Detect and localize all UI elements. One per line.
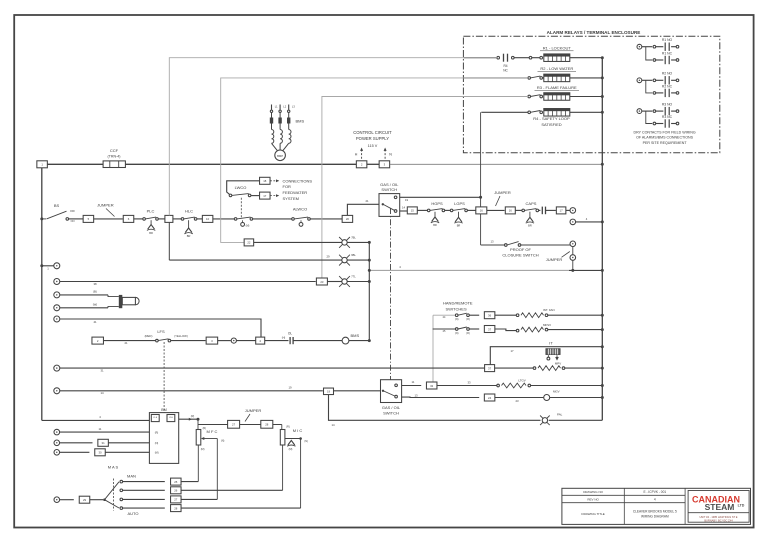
svg-text:R4 - SAFETY LOOP: R4 - SAFETY LOOP [533, 116, 570, 121]
svg-text:BR: BR [433, 223, 437, 227]
svg-text:17: 17 [263, 194, 267, 198]
svg-text:19: 19 [327, 390, 331, 394]
svg-text:11: 11 [99, 427, 102, 431]
svg-text:MPV: MPV [555, 362, 561, 366]
svg-text:14: 14 [100, 391, 104, 395]
svg-text:27: 27 [174, 498, 178, 502]
svg-text:(TRN-4): (TRN-4) [108, 154, 121, 158]
svg-text:N: N [389, 153, 392, 157]
svg-text:20: 20 [346, 217, 350, 221]
svg-text:M F C: M F C [207, 429, 218, 434]
svg-text:SWITCHES: SWITCHES [446, 307, 467, 312]
svg-text:18: 18 [263, 179, 267, 183]
svg-text:41: 41 [93, 320, 97, 324]
svg-text:E - ICPVK - 001: E - ICPVK - 001 [643, 490, 666, 494]
svg-text:(M): (M) [246, 225, 250, 228]
svg-text:CONTROL CIRCUIT: CONTROL CIRCUIT [353, 130, 392, 135]
svg-text:CCF: CCF [110, 148, 119, 153]
svg-text:FOR: FOR [283, 184, 292, 189]
svg-text:PAL: PAL [557, 412, 563, 416]
svg-text:LGPS: LGPS [454, 201, 465, 206]
svg-text:R4: R4 [503, 64, 507, 68]
svg-text:PER SITE REQUIREMENT: PER SITE REQUIREMENT [643, 141, 688, 145]
svg-text:HAND/REMOTE: HAND/REMOTE [443, 301, 473, 306]
svg-text:(R): (R) [466, 318, 470, 321]
svg-text:SYSTEM: SYSTEM [283, 196, 299, 201]
svg-text:LFS: LFS [157, 329, 165, 334]
svg-text:31: 31 [100, 369, 104, 373]
svg-text:SATISFIED: SATISFIED [541, 122, 561, 127]
svg-text:JUMPER: JUMPER [97, 203, 114, 208]
svg-text:25: 25 [174, 480, 178, 484]
svg-text:16: 16 [509, 209, 513, 213]
svg-text:29: 29 [83, 498, 87, 502]
svg-text:H: H [355, 153, 358, 157]
svg-text:CLEAVER BROOKS MODEL 5: CLEAVER BROOKS MODEL 5 [633, 510, 677, 514]
svg-text:MGV: MGV [553, 389, 560, 393]
svg-text:(H): (H) [282, 336, 286, 339]
svg-text:BR: BR [457, 224, 461, 228]
svg-text:ON: ON [71, 220, 75, 223]
svg-text:BR: BR [149, 231, 153, 235]
svg-text:PROOF OF: PROOF OF [510, 247, 531, 252]
svg-text:13: 13 [414, 393, 418, 397]
svg-text:JUMPER: JUMPER [494, 190, 511, 195]
svg-text:CLOSURE SWITCH: CLOSURE SWITCH [502, 253, 538, 258]
svg-text:BM: BM [161, 408, 166, 412]
svg-text:(B): (B) [93, 290, 97, 294]
svg-text:(M): (M) [201, 448, 205, 451]
svg-text:(N): (N) [455, 332, 459, 335]
svg-text:11: 11 [412, 380, 415, 384]
svg-text:MAN: MAN [127, 474, 136, 479]
svg-text:36: 36 [488, 314, 492, 318]
svg-text:(R): (R) [286, 425, 290, 428]
svg-text:37: 37 [488, 327, 492, 331]
svg-text:JUMPER: JUMPER [546, 257, 563, 262]
svg-text:19: 19 [288, 385, 292, 389]
svg-text:10: 10 [206, 217, 210, 221]
svg-text:32: 32 [430, 384, 434, 388]
svg-text:(R): (R) [155, 431, 159, 434]
svg-text:28: 28 [174, 506, 178, 510]
svg-text:POWER SUPPLY: POWER SUPPLY [356, 136, 389, 141]
svg-text:R2 NC: R2 NC [662, 84, 673, 88]
svg-text:14: 14 [331, 423, 335, 427]
svg-text:BS: BS [54, 203, 60, 208]
svg-text:R3 NO: R3 NO [662, 103, 673, 107]
svg-text:ALWCO: ALWCO [293, 206, 307, 211]
svg-text:AUTO: AUTO [127, 511, 138, 516]
svg-text:WIRING DIAGRAM: WIRING DIAGRAM [641, 515, 669, 519]
svg-text:LWCO: LWCO [235, 185, 247, 190]
svg-text:BMP: BMP [277, 154, 283, 158]
svg-text:21: 21 [365, 199, 369, 203]
svg-text:27: 27 [232, 423, 236, 427]
svg-text:24: 24 [488, 396, 492, 400]
svg-text:M I C: M I C [293, 428, 303, 433]
svg-text:ALARM RELAYS / TERMINAL ENCLOS: ALARM RELAYS / TERMINAL ENCLOSURE [547, 30, 641, 35]
svg-text:R2 NO: R2 NO [662, 72, 673, 76]
svg-text:(W): (W) [93, 302, 98, 306]
svg-text:29: 29 [326, 255, 330, 259]
svg-text:BR: BR [528, 224, 532, 228]
svg-text:R3 NC: R3 NC [662, 115, 673, 119]
svg-text:(RED): (RED) [145, 334, 153, 338]
svg-text:DRY CONTACTS FOR FIELD WIRING: DRY CONTACTS FOR FIELD WIRING [634, 130, 696, 134]
svg-text:23: 23 [515, 399, 519, 403]
svg-text:M A S: M A S [108, 465, 119, 470]
svg-text:6BL: 6BL [351, 253, 356, 257]
svg-text:INT. FAN: INT. FAN [543, 308, 555, 312]
svg-text:28: 28 [265, 423, 269, 427]
svg-text:14: 14 [402, 206, 406, 210]
svg-text:(M): (M) [289, 448, 293, 451]
svg-text:115 V: 115 V [368, 144, 378, 148]
svg-text:DRAWING NO: DRAWING NO [583, 490, 603, 494]
svg-text:R1 NC: R1 NC [662, 51, 673, 55]
svg-text:(N): (N) [304, 440, 308, 443]
svg-text:MFSV: MFSV [543, 323, 551, 327]
svg-text:19: 19 [405, 198, 409, 202]
svg-text:30: 30 [98, 451, 102, 455]
svg-text:NC: NC [503, 69, 508, 73]
svg-text:26: 26 [174, 489, 178, 493]
svg-text:DRAWING TITLE: DRAWING TITLE [581, 512, 604, 516]
svg-text:(R): (R) [191, 415, 195, 418]
svg-text:21: 21 [124, 341, 128, 345]
svg-text:OF ALARMS/BMS CONNECTIONS: OF ALARMS/BMS CONNECTIONS [636, 136, 694, 140]
svg-text:OL: OL [288, 332, 292, 336]
svg-text:CAPS: CAPS [526, 201, 537, 206]
svg-text:38: 38 [93, 282, 97, 286]
svg-text:17: 17 [560, 209, 564, 213]
svg-text:R2 - LOW WATER: R2 - LOW WATER [540, 66, 573, 71]
svg-text:PLC: PLC [147, 209, 155, 214]
svg-text:(R): (R) [203, 427, 207, 430]
svg-text:33: 33 [467, 380, 471, 384]
svg-text:GAS / OIL: GAS / OIL [382, 405, 401, 410]
svg-text:31: 31 [102, 441, 106, 445]
svg-text:(M): (M) [155, 452, 159, 455]
svg-text:IT: IT [549, 341, 553, 346]
svg-text:22: 22 [247, 241, 251, 245]
svg-text:OFF: OFF [70, 210, 75, 213]
svg-text:4: 4 [654, 497, 656, 501]
svg-text:UNIT #4 - 1385 HASTINGS ST E: UNIT #4 - 1385 HASTINGS ST E [699, 515, 737, 519]
svg-text:R3 - FLAME FAILURE: R3 - FLAME FAILURE [537, 85, 577, 90]
svg-text:HGPS: HGPS [431, 201, 443, 206]
svg-text:(R): (R) [466, 332, 470, 335]
svg-text:(N): (N) [455, 318, 459, 321]
svg-text:(YELLOW): (YELLOW) [174, 334, 188, 338]
svg-text:7TL: 7TL [351, 275, 356, 279]
svg-text:SWITCH: SWITCH [381, 187, 397, 192]
svg-text:LTGV: LTGV [518, 379, 525, 383]
svg-text:SWITCH: SWITCH [383, 410, 399, 415]
svg-text:(N): (N) [155, 442, 159, 445]
svg-text:R1 - LOCKOUT: R1 - LOCKOUT [543, 45, 572, 50]
svg-text:BURNABY, BC V5C 2X4: BURNABY, BC V5C 2X4 [704, 519, 733, 523]
svg-text:23: 23 [320, 280, 324, 284]
svg-text:FEEDWATER: FEEDWATER [283, 190, 308, 195]
svg-text:15: 15 [411, 209, 415, 213]
svg-text:BMS: BMS [351, 333, 360, 338]
svg-text:17: 17 [510, 349, 514, 353]
svg-text:BMS: BMS [296, 118, 305, 123]
svg-text:HLC: HLC [185, 209, 193, 214]
svg-text:37: 37 [488, 366, 492, 370]
svg-text:BR: BR [187, 234, 191, 238]
svg-text:16: 16 [480, 209, 484, 213]
svg-text:13: 13 [490, 240, 494, 244]
svg-text:JUMPER: JUMPER [245, 408, 262, 413]
svg-text:(N): (N) [221, 440, 225, 443]
svg-text:LTD: LTD [738, 503, 745, 507]
svg-text:R1 NO: R1 NO [662, 38, 673, 42]
svg-text:7BL: 7BL [351, 235, 356, 239]
svg-text:CONNECTIONS: CONNECTIONS [283, 178, 313, 183]
svg-text:STEAM: STEAM [705, 502, 735, 512]
svg-text:REV NO: REV NO [587, 497, 599, 501]
